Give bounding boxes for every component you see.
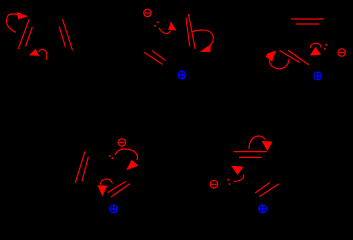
- arrowhead of lone-pair arrow S2: [168, 21, 176, 30]
- plus charge circle blue S4: [110, 205, 118, 213]
- curved arrow hook (H shift): [39, 49, 47, 60]
- minus charge circle: [144, 9, 151, 16]
- double bond 1 line a: [75, 151, 85, 183]
- curved arrow A from lone pair: [115, 149, 137, 160]
- curved arrow U-loop: [270, 58, 289, 69]
- curved arrow dome over bond: [249, 136, 265, 149]
- arrowhead of hook arrow S5: [231, 166, 243, 175]
- lone pair dots S4: [109, 155, 114, 159]
- arrowhead of U-loop arrow S3: [266, 51, 276, 62]
- arrowhead of dome arrow S5: [262, 141, 273, 151]
- lone pair dots S5: [227, 179, 230, 185]
- top double bond line b: [296, 23, 319, 25]
- curved arrow from lone pair: [159, 28, 170, 34]
- double bond 2 line b: [111, 184, 130, 197]
- double bond C1=C2 line b: [26, 27, 33, 47]
- top double bond line a: [234, 151, 267, 153]
- top double bond line b: [239, 156, 262, 158]
- arrowhead of loop arrow S2: [200, 44, 211, 52]
- arrowhead of arrow B S4: [97, 185, 107, 196]
- double bond 2 line b: [259, 184, 279, 197]
- double bond 2 line a: [255, 182, 270, 193]
- minus charge circle S5: [210, 181, 217, 188]
- double bond C3=C4 line b: [59, 26, 65, 47]
- top double bond line a: [291, 18, 324, 20]
- double bond C3=C4 line a: [62, 19, 72, 50]
- arrowhead of curl arrow S3: [310, 47, 321, 56]
- arrowhead of hook arrow S1: [29, 49, 40, 56]
- plus charge circle blue S5: [259, 205, 267, 213]
- double bond 2 line a: [107, 181, 126, 192]
- double bond B line b: [188, 14, 195, 49]
- plus charge circle blue S3: [314, 72, 322, 80]
- double bond C1=C2 line a: [18, 19, 29, 49]
- middle double bond line a: [280, 51, 300, 63]
- minus charge circle S4: [118, 139, 125, 146]
- double bond A line b: [152, 51, 165, 61]
- lone pair dots S3: [324, 44, 328, 50]
- plus charge circle blue: [178, 71, 186, 79]
- middle double bond line b: [288, 50, 309, 65]
- curved arrow curl from lone pair: [310, 43, 321, 47]
- double bond B line a: [186, 18, 190, 47]
- double bond A line a: [144, 52, 162, 64]
- curved arrow hook from lone pair: [234, 175, 244, 182]
- curved arrow B small loop: [101, 179, 113, 185]
- minus charge circle S3: [338, 49, 345, 56]
- lone pair dots: [154, 21, 159, 26]
- curved arrow loop (pi bond C1=C2 rotation): [7, 14, 19, 33]
- arrowhead of loop arrow S1: [17, 12, 28, 20]
- arrowhead of arrow A S4: [126, 160, 138, 170]
- double bond 1 line b: [82, 157, 89, 182]
- curved arrow loop from pi bond: [192, 30, 213, 45]
